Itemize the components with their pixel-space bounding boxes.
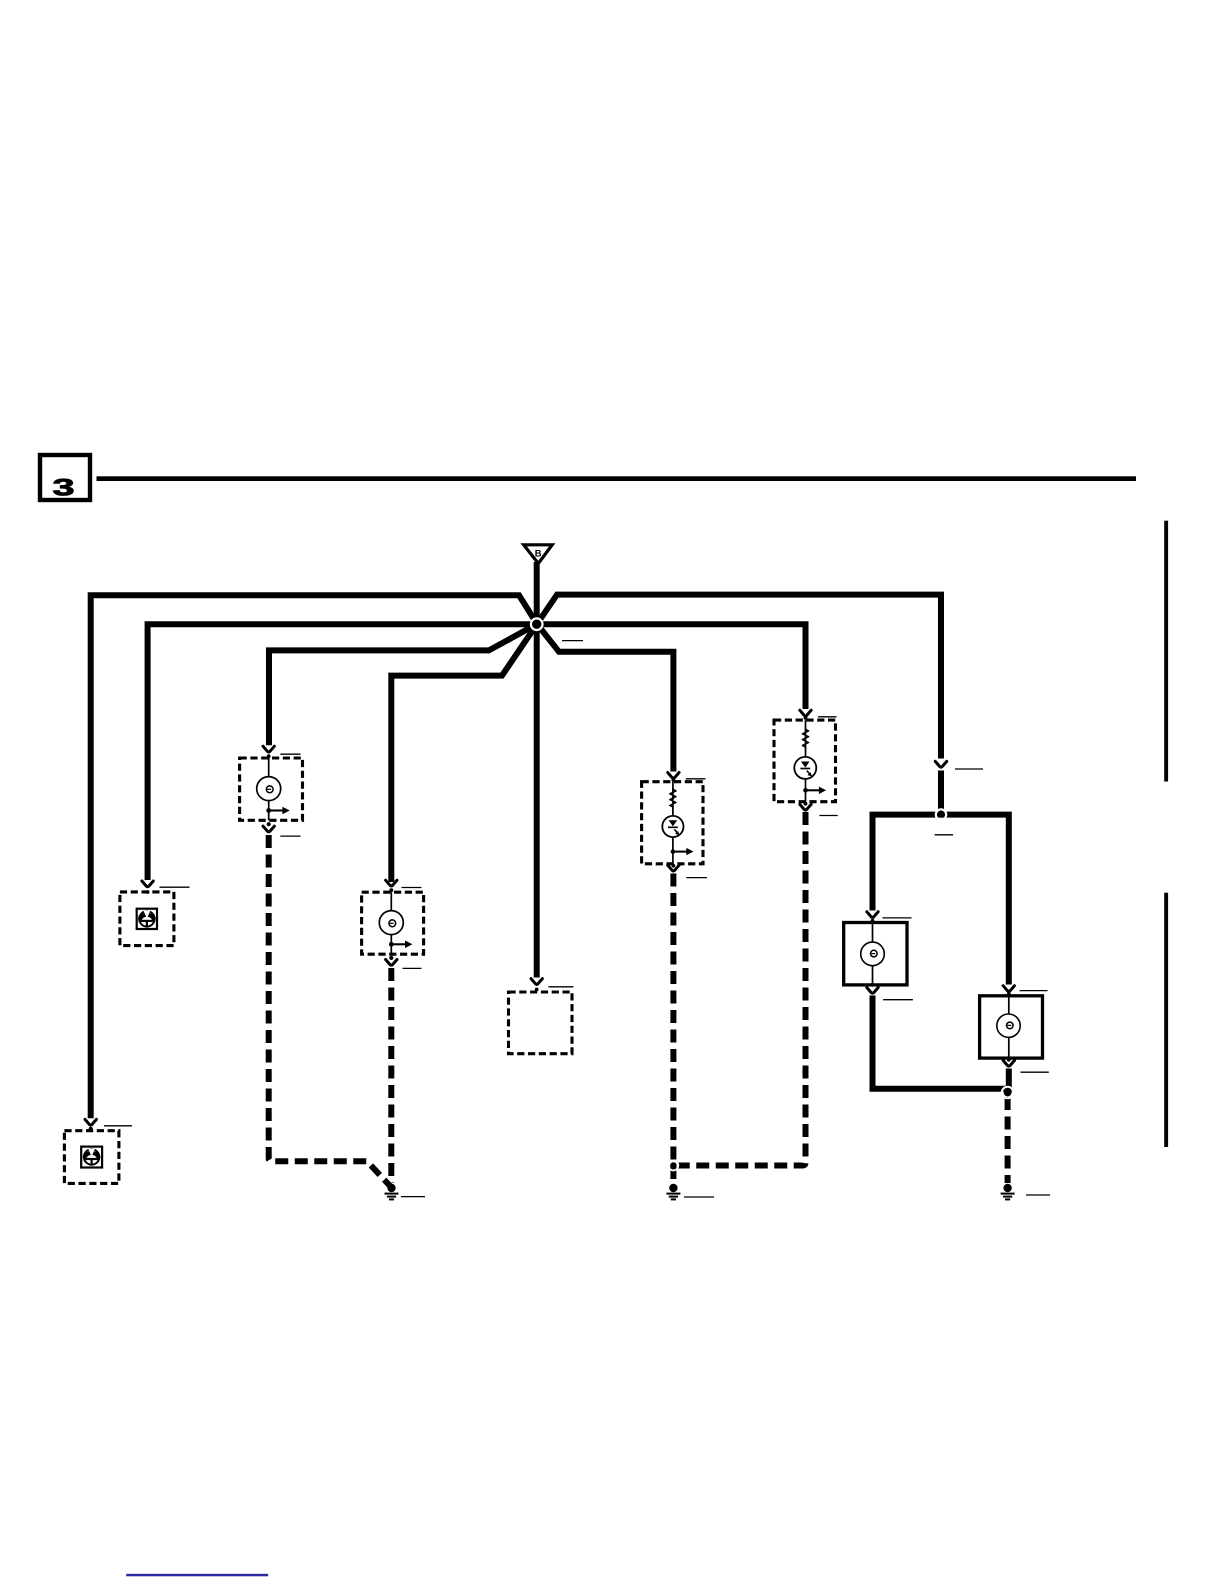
- svg-text:B: B: [535, 549, 542, 559]
- svg-text:3: 3: [52, 473, 74, 500]
